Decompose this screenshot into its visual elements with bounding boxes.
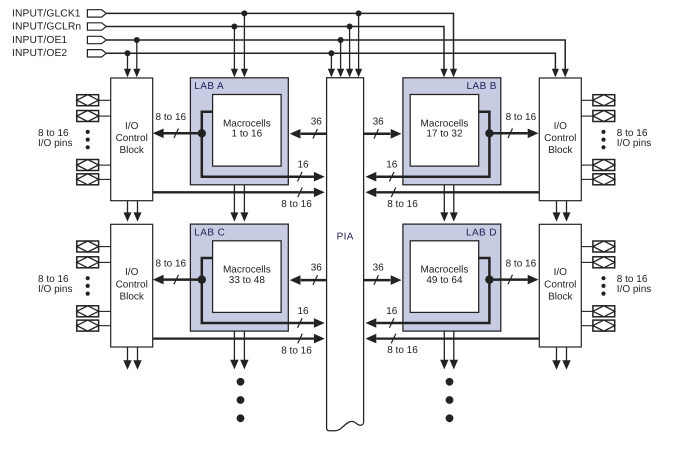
svg-text:INPUT/GLCK1: INPUT/GLCK1 [12,8,81,19]
svg-text:8 to 16: 8 to 16 [387,199,418,210]
svg-text:I/O pins: I/O pins [38,284,72,295]
svg-text:16: 16 [297,160,309,171]
svg-text:8 to 16: 8 to 16 [281,345,312,356]
svg-text:Control: Control [116,279,148,290]
svg-text:8 to 16: 8 to 16 [281,199,312,210]
svg-text:36: 36 [373,116,385,127]
svg-text:Block: Block [119,292,144,303]
svg-text:1 to 16: 1 to 16 [232,129,263,140]
svg-text:LAB C: LAB C [194,227,225,238]
svg-text:Control: Control [116,133,148,144]
svg-text:16: 16 [386,306,398,317]
svg-text:Block: Block [548,292,573,303]
svg-text:8 to 16: 8 to 16 [156,112,187,123]
svg-text:LAB B: LAB B [467,81,497,92]
svg-text:I/O: I/O [554,121,568,132]
svg-text:I/O: I/O [554,267,568,278]
svg-text:Control: Control [544,279,576,290]
svg-text:I/O pins: I/O pins [617,138,651,149]
svg-text:36: 36 [373,263,385,274]
svg-text:16: 16 [297,306,309,317]
svg-text:8 to 16: 8 to 16 [506,112,537,123]
svg-text:33 to 48: 33 to 48 [229,275,266,286]
svg-text:Control: Control [544,133,576,144]
svg-text:Block: Block [548,145,573,156]
svg-text:LAB D: LAB D [466,227,497,238]
svg-text:8 to 16: 8 to 16 [156,258,187,269]
svg-text:8 to 16: 8 to 16 [506,258,537,269]
svg-text:8 to 16: 8 to 16 [387,345,418,356]
svg-text:36: 36 [311,263,323,274]
svg-text:INPUT/OE1: INPUT/OE1 [12,35,67,46]
svg-text:I/O: I/O [125,267,139,278]
svg-text:PIA: PIA [337,231,354,242]
svg-text:49 to 64: 49 to 64 [426,275,463,286]
svg-text:I/O pins: I/O pins [617,284,651,295]
svg-text:LAB A: LAB A [194,81,224,92]
svg-text:INPUT/GCLRn: INPUT/GCLRn [12,21,81,32]
svg-text:I/O pins: I/O pins [38,138,72,149]
svg-text:16: 16 [386,160,398,171]
svg-text:INPUT/OE2: INPUT/OE2 [12,48,67,59]
svg-text:17 to 32: 17 to 32 [426,129,463,140]
svg-text:36: 36 [311,116,323,127]
svg-text:Block: Block [119,145,144,156]
svg-text:I/O: I/O [125,121,139,132]
